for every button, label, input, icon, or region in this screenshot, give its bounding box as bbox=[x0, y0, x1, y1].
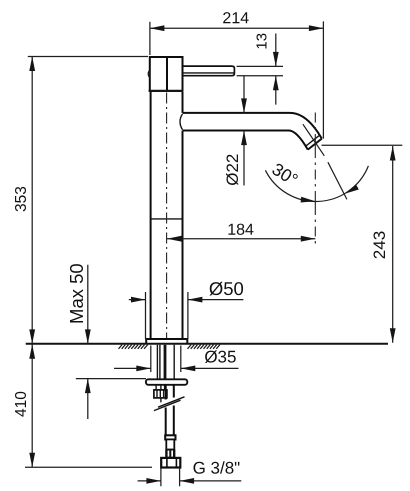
outlet 30 degree axis line bbox=[303, 124, 347, 199]
mounting washer plate bbox=[146, 379, 187, 385]
dimension diameter 35 bbox=[114, 346, 239, 373]
dimension 243 bbox=[322, 145, 403, 342]
30 degree angle arc bbox=[265, 159, 368, 203]
counter line bbox=[26, 343, 388, 345]
dimension diameter 22 bbox=[223, 76, 247, 186]
column seam line bbox=[151, 218, 183, 220]
svg-text:184: 184 bbox=[227, 222, 254, 239]
dimension 13 bbox=[237, 33, 283, 105]
shank tubes below counter bbox=[157, 345, 174, 380]
mounting nut bbox=[154, 390, 167, 398]
stud tail bbox=[160, 398, 162, 402]
svg-text:Ø35: Ø35 bbox=[204, 347, 236, 366]
counter hatching bbox=[119, 345, 220, 349]
dimension 410 bbox=[13, 344, 152, 467]
svg-text:353: 353 bbox=[13, 186, 30, 212]
hose break marks bbox=[154, 397, 185, 411]
column centerline bbox=[166, 93, 168, 339]
stud lines below plate bbox=[156, 385, 165, 390]
dimension Max 50 bbox=[66, 263, 146, 419]
dimension 353 bbox=[13, 57, 148, 344]
base flange bbox=[146, 339, 187, 344]
lever handle bbox=[183, 66, 235, 76]
svg-text:214: 214 bbox=[222, 10, 249, 27]
faucet column bbox=[151, 92, 183, 339]
supply hose bbox=[166, 385, 174, 436]
connector knurled collar bbox=[165, 450, 175, 458]
svg-text:13: 13 bbox=[253, 33, 270, 50]
spout bbox=[183, 113, 322, 150]
dimension diameter 50 bbox=[129, 278, 244, 339]
dimension 214 bbox=[150, 10, 324, 138]
faucet head body bbox=[149, 57, 184, 92]
svg-text:Ø50: Ø50 bbox=[209, 278, 244, 299]
svg-text:Ø22: Ø22 bbox=[223, 154, 242, 186]
svg-text:410: 410 bbox=[13, 391, 30, 417]
connector hex nut G3/8 bbox=[161, 458, 180, 468]
head left bump bbox=[148, 70, 151, 79]
svg-text:G 3/8": G 3/8" bbox=[193, 459, 241, 478]
svg-text:Max 50: Max 50 bbox=[66, 263, 87, 324]
dimension G 3/8 bbox=[138, 459, 242, 487]
spout joint fillet bbox=[180, 114, 183, 130]
svg-text:243: 243 bbox=[370, 231, 389, 259]
outlet vertical centerline bbox=[314, 113, 316, 247]
dimension 184 bbox=[167, 222, 315, 242]
hose ferrule bbox=[165, 435, 175, 449]
